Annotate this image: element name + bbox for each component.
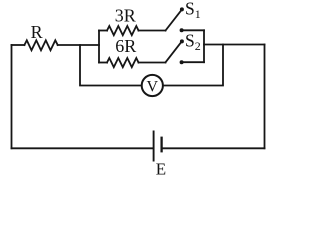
wire 3R left lead: [99, 30, 107, 32]
resistor R: [24, 40, 57, 50]
wire 6R left lead: [99, 62, 107, 64]
switch S2 blade tip dot: [180, 39, 184, 43]
svg-text:S1: S1: [185, 0, 201, 21]
svg-text:6R: 6R: [115, 36, 136, 56]
wire bottom right: [162, 147, 265, 149]
battery E long plate: [153, 131, 155, 162]
switch S2 output wire: [182, 61, 205, 63]
svg-text:R: R: [31, 22, 43, 42]
wire voltmeter left tap: [80, 45, 141, 86]
wire R to parallel-junction: [58, 44, 99, 46]
resistor 3R: [107, 26, 139, 35]
wire voltmeter right tap: [164, 45, 224, 86]
svg-text:E: E: [156, 159, 166, 175]
switch S1 blade tip dot: [180, 7, 184, 11]
voltmeter U1 circle: [142, 75, 163, 96]
wire top-left segment: [12, 44, 25, 46]
wire left vertical of parallel section: [98, 31, 100, 63]
battery E short plate: [160, 137, 162, 153]
wire 6R to switch S2 pivot: [139, 62, 166, 64]
svg-text:3R: 3R: [115, 5, 136, 25]
switch S2 terminal dot: [180, 60, 184, 64]
wire 3R to switch S1 pivot: [139, 30, 166, 32]
switch S1 output wire: [182, 29, 205, 31]
switch S2 blade: [166, 42, 182, 62]
wire bottom left: [12, 147, 154, 149]
wire right edge: [264, 45, 266, 149]
wire left edge: [11, 45, 13, 148]
svg-text:V: V: [147, 79, 159, 96]
resistor 6R: [107, 58, 139, 67]
switch S1 blade: [166, 11, 182, 31]
wire right vertical joining branches: [203, 30, 205, 62]
switch S1 terminal dot: [180, 28, 184, 32]
svg-text:S2: S2: [185, 31, 201, 53]
wire right rail: [204, 44, 265, 46]
